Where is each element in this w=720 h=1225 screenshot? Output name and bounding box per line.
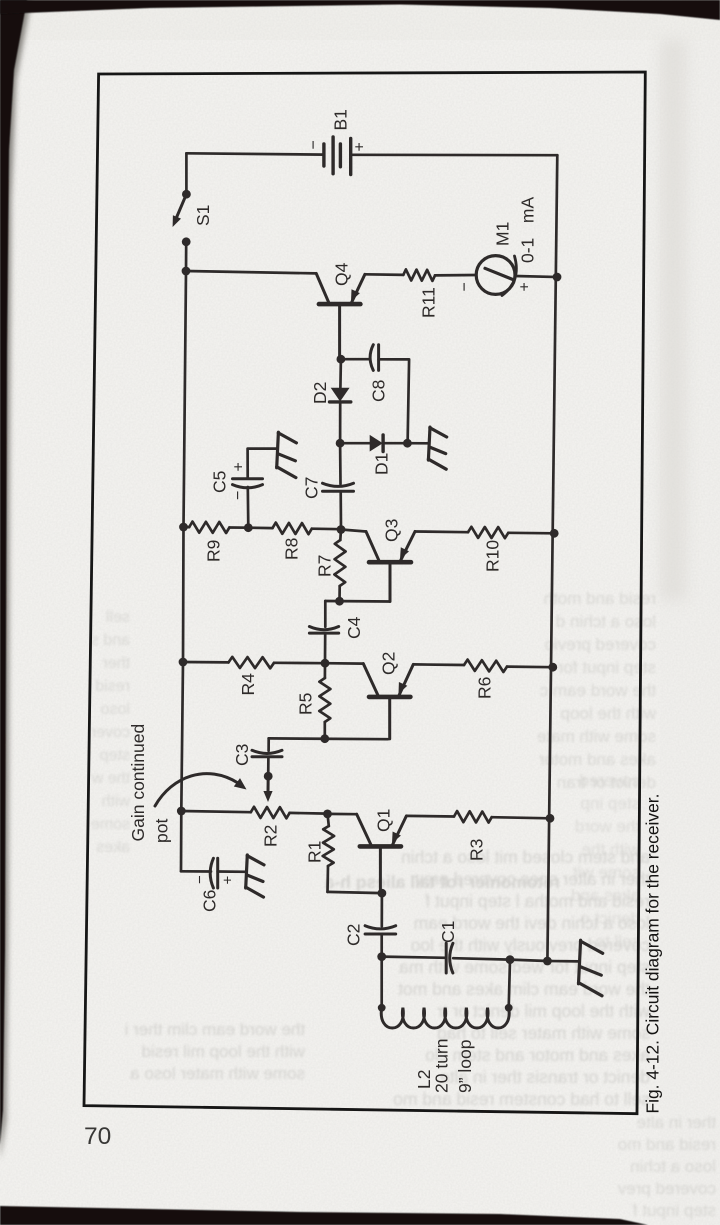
svg-text:cover: cover bbox=[90, 724, 130, 741]
node: R8 / R7 / C7 / Q3 collector bbox=[337, 525, 346, 534]
wire: C5 top to ground bbox=[248, 449, 277, 479]
resistor R4 bbox=[183, 661, 229, 664]
wire: to ground right of D1 bbox=[407, 442, 428, 445]
node: R7 bottom / C4 / Q3 base bbox=[335, 597, 344, 606]
resistor R10 bbox=[468, 527, 508, 538]
wire: Q1 emitter to R3 bbox=[406, 815, 454, 818]
node: meter / right rail bbox=[553, 273, 562, 282]
wire: Q4 collector row bbox=[186, 271, 316, 273]
node: R3 / right rail bbox=[546, 814, 555, 823]
capacitor C2 bbox=[365, 933, 396, 936]
svg-text:Q4: Q4 bbox=[332, 262, 352, 286]
wire: to Q1 collector bbox=[328, 813, 357, 816]
svg-text:C2: C2 bbox=[344, 924, 364, 946]
capacitor C5 bbox=[233, 477, 263, 480]
node: left rail / R2 row bbox=[177, 807, 186, 816]
svg-text:+: + bbox=[220, 876, 237, 885]
wire: left rail upper (corner to S1) bbox=[185, 153, 188, 194]
node: R9 / R8 / C5 bbox=[244, 523, 253, 532]
svg-text:−: − bbox=[457, 282, 474, 291]
svg-text:0-1 mA: 0-1 mA bbox=[518, 197, 538, 263]
resistor R1 bbox=[328, 814, 329, 826]
wire: C4 column bbox=[324, 601, 327, 627]
scan edge shading left (soft) bbox=[0, 0, 31, 1160]
svg-text:sell: sell bbox=[106, 609, 130, 626]
capacitor C1 bbox=[445, 943, 448, 973]
wire: to right rail bottom bbox=[510, 960, 547, 961]
svg-text:the word: the word bbox=[575, 817, 640, 836]
svg-text:with the loop mil resid: with the loop mil resid bbox=[142, 1042, 306, 1061]
svg-text:covered previo: covered previo bbox=[544, 635, 656, 654]
ground (C5) bbox=[277, 432, 279, 468]
svg-text:C1: C1 bbox=[438, 921, 458, 943]
svg-text:and s: and s bbox=[91, 632, 130, 649]
switch S1 bbox=[173, 190, 191, 246]
svg-text:C3: C3 bbox=[232, 744, 252, 766]
wire: C5 branch up bbox=[246, 487, 249, 528]
wire: D1 anode stub bbox=[340, 442, 370, 445]
svg-text:C8: C8 bbox=[369, 380, 389, 402]
svg-text:R11: R11 bbox=[419, 287, 439, 318]
svg-text:some with mate: some with mate bbox=[537, 727, 656, 746]
wire: meter to right rail bbox=[515, 276, 557, 277]
resistor R6 bbox=[464, 660, 507, 672]
svg-text:R3: R3 bbox=[467, 839, 487, 861]
svg-text:step: step bbox=[100, 747, 130, 764]
node: D1 anode junction bbox=[336, 439, 345, 448]
wire: battery + to top-right corner and down right rail bbox=[351, 153, 558, 156]
svg-text:C4: C4 bbox=[344, 616, 364, 639]
svg-text:+: + bbox=[517, 282, 534, 291]
node: R6 / right rail bbox=[548, 663, 557, 672]
node: Q4 base / D2 / C8 bbox=[337, 355, 346, 364]
capacitor C3 bbox=[252, 755, 282, 758]
svg-text:loso a tchin: loso a tchin bbox=[630, 1157, 716, 1176]
diode D1 bbox=[370, 435, 383, 452]
wire: C7 column bbox=[339, 443, 342, 484]
svg-text:9” loop: 9” loop bbox=[455, 1039, 475, 1093]
wire: Q3 emitter to R10 bbox=[415, 530, 468, 533]
svg-text:D2: D2 bbox=[310, 382, 330, 404]
wire: C4 to R4 row bbox=[324, 633, 327, 661]
wire: Q4 emitter to R11 bbox=[365, 273, 403, 276]
figure border frame bbox=[84, 72, 645, 1114]
scan edge: bottom black strip bbox=[0, 1206, 648, 1225]
wire: C8 to D1 node corner bbox=[379, 359, 410, 443]
svg-text:+: + bbox=[231, 462, 248, 471]
resistor R3 bbox=[454, 811, 492, 823]
capacitor C6 bbox=[216, 858, 219, 888]
node: bottom row / right rail bbox=[543, 957, 552, 966]
node: D1 / C8 / ground bbox=[403, 439, 412, 448]
wire: loop left stub bbox=[380, 957, 383, 1008]
svg-text:S1: S1 bbox=[193, 205, 213, 226]
svg-text:M1: M1 bbox=[493, 222, 513, 246]
page curvature shading right bbox=[660, 40, 686, 600]
node: R5 bottom bbox=[320, 734, 329, 743]
wire: C6 branch from rail corner bbox=[181, 870, 211, 873]
svg-text:C7: C7 bbox=[302, 477, 322, 499]
node: R2 / R1 / Q1 collector bbox=[323, 810, 332, 819]
wire: bottom row right part bbox=[453, 958, 510, 959]
svg-text:with: with bbox=[102, 793, 131, 810]
svg-text:Gain continued: Gain continued bbox=[128, 724, 148, 842]
capacitor C8 bbox=[377, 345, 380, 371]
svg-text:C5: C5 bbox=[210, 471, 230, 493]
wire: Q2 emitter to R6 bbox=[413, 663, 464, 666]
wire: right rail bbox=[547, 155, 557, 961]
meter M1 bbox=[476, 256, 516, 296]
svg-text:pot: pot bbox=[152, 819, 172, 843]
resistor R9 bbox=[184, 526, 190, 529]
wire: Q3 collector to R8 node bbox=[341, 530, 366, 532]
node: C4 / R5 / Q2 collector bbox=[321, 659, 330, 668]
inductor L2 loop coil bbox=[381, 1008, 509, 1028]
node: loop right / bottom row bbox=[506, 955, 515, 964]
node: C3 / wiper bbox=[264, 772, 273, 781]
wire: bottom row left part bbox=[382, 957, 446, 958]
svg-text:Fig. 4-12. Circuit diagram for: Fig. 4-12. Circuit diagram for the recei… bbox=[643, 794, 663, 1114]
svg-text:and stem closed mit loso a tch: and stem closed mit loso a tchin bbox=[401, 847, 650, 867]
svg-text:−: − bbox=[306, 140, 323, 149]
svg-text:Q1: Q1 bbox=[374, 809, 394, 832]
svg-text:the word eam c: the word eam c bbox=[539, 681, 656, 700]
svg-text:R6: R6 bbox=[475, 677, 495, 699]
svg-text:loso: loso bbox=[101, 701, 130, 718]
diode D2 bbox=[330, 388, 351, 402]
svg-text:resid: resid bbox=[95, 678, 130, 695]
wire: D2 cathode to D1 node bbox=[339, 402, 342, 443]
svg-text:R10: R10 bbox=[483, 540, 503, 572]
svg-text:covered: covered bbox=[580, 771, 640, 790]
svg-text:70: 70 bbox=[84, 1123, 111, 1150]
svg-text:D1: D1 bbox=[372, 453, 392, 475]
node: left rail / R4 bbox=[179, 658, 188, 667]
svg-text:some with mater loso a: some with mater loso a bbox=[130, 1064, 305, 1083]
potentiometer R2 bbox=[181, 811, 251, 812]
resistor R11 bbox=[403, 269, 435, 281]
transistor Q3 bbox=[366, 532, 415, 602]
wire: C7 to R9 row bbox=[339, 491, 342, 530]
svg-text:+: + bbox=[352, 142, 369, 151]
node: Q1 base / R1 / C2 bbox=[378, 889, 387, 898]
scan edge: left black strip bbox=[0, 0, 27, 1145]
transistor Q2 bbox=[363, 664, 413, 739]
wire: 739 line from C3 corner to Q2 base bbox=[269, 737, 388, 740]
svg-text:R2: R2 bbox=[261, 825, 281, 847]
svg-text:R1: R1 bbox=[305, 841, 325, 863]
svg-text:20 turn: 20 turn bbox=[432, 1039, 452, 1093]
wire: C2 to bottom row bbox=[380, 934, 383, 956]
wire: to Q2 collector bbox=[325, 662, 363, 665]
svg-text:with the loop: with the loop bbox=[561, 704, 657, 723]
wire: to bottom-right ground bbox=[547, 960, 579, 963]
wire: R11 to meter bbox=[435, 274, 476, 277]
svg-text:the word eam clim akes and mot: the word eam clim akes and mot bbox=[398, 979, 650, 999]
ground (bottom right) bbox=[579, 940, 581, 984]
wire: top rail from S1 corner to battery bbox=[186, 153, 324, 154]
svg-text:resid and moth: resid and moth bbox=[544, 589, 656, 608]
wire: loop right stub bbox=[509, 960, 510, 1008]
resistor R8 bbox=[248, 526, 272, 529]
capacitor C7 bbox=[323, 490, 354, 493]
svg-text:−: − bbox=[230, 491, 247, 500]
scan edge: top black strip bbox=[0, 0, 720, 20]
svg-text:the word eam clim ther i: the word eam clim ther i bbox=[125, 1020, 305, 1039]
node: rail to Q4 base row bbox=[182, 267, 191, 276]
wire: C3 column bbox=[267, 738, 270, 750]
resistor R5 bbox=[324, 663, 327, 678]
wire: C8 branch horizontal bbox=[341, 358, 370, 361]
node: loop left top bbox=[378, 1004, 386, 1012]
svg-text:akes: akes bbox=[96, 839, 130, 856]
wire: 601 line to C4 corner bbox=[325, 600, 389, 603]
svg-text:resid and motha l step input f: resid and motha l step input f bbox=[425, 891, 650, 911]
pot wiper arrow bbox=[267, 776, 270, 792]
resistor R7 bbox=[339, 530, 342, 541]
wire: C3 to wiper node bbox=[267, 757, 270, 776]
node: left rail / R9 bbox=[179, 523, 188, 532]
node: R10 / right rail bbox=[550, 529, 559, 538]
svg-text:R8: R8 bbox=[282, 538, 302, 560]
svg-text:Q2: Q2 bbox=[379, 652, 399, 675]
svg-text:the w: the w bbox=[91, 770, 130, 787]
transistor Q4 bbox=[316, 273, 365, 359]
wire: left rail lower (S1 to C6 corner) bbox=[181, 242, 186, 872]
svg-text:Q3: Q3 bbox=[382, 519, 402, 542]
svg-text:R9: R9 bbox=[204, 540, 224, 562]
ground (D1 node) bbox=[428, 427, 430, 460]
svg-text:−: − bbox=[192, 875, 209, 884]
svg-text:covered prev: covered prev bbox=[617, 1179, 716, 1198]
svg-text:some: some bbox=[91, 816, 130, 833]
capacitor C4 bbox=[309, 632, 338, 635]
node: bottom row / loop left bbox=[377, 952, 386, 961]
svg-text:ther in alte: ther in alte bbox=[637, 1113, 716, 1132]
svg-text:R7: R7 bbox=[315, 555, 335, 577]
wire: R1 bottom to Q1 base node bbox=[328, 892, 382, 893]
svg-text:step input f: step input f bbox=[633, 1201, 716, 1220]
wire: D2 anode stub bbox=[339, 359, 342, 388]
annotation: curved arrow to pot bbox=[155, 774, 238, 806]
battery B1 bbox=[324, 137, 351, 175]
svg-text:step inp: step inp bbox=[580, 794, 640, 813]
svg-text:retomonier rot tail aliesq h-a: retomonier rot tail aliesq h-a bbox=[324, 872, 560, 892]
svg-text:with the loop mil denict or tr: with the loop mil denict or tr bbox=[437, 1001, 651, 1021]
svg-text:ther: ther bbox=[102, 655, 130, 672]
wire: C2 column bbox=[380, 893, 383, 926]
svg-text:resid and mo: resid and mo bbox=[618, 1135, 716, 1154]
transistor Q1 bbox=[357, 814, 407, 893]
svg-text:B1: B1 bbox=[331, 109, 351, 130]
svg-text:R4: R4 bbox=[238, 673, 258, 696]
svg-text:C6: C6 bbox=[200, 890, 220, 912]
svg-text:R5: R5 bbox=[296, 693, 316, 715]
ground (C6) bbox=[246, 855, 248, 888]
wire: D1 cathode to junction bbox=[383, 442, 407, 445]
node: loop right top bbox=[505, 1004, 513, 1012]
